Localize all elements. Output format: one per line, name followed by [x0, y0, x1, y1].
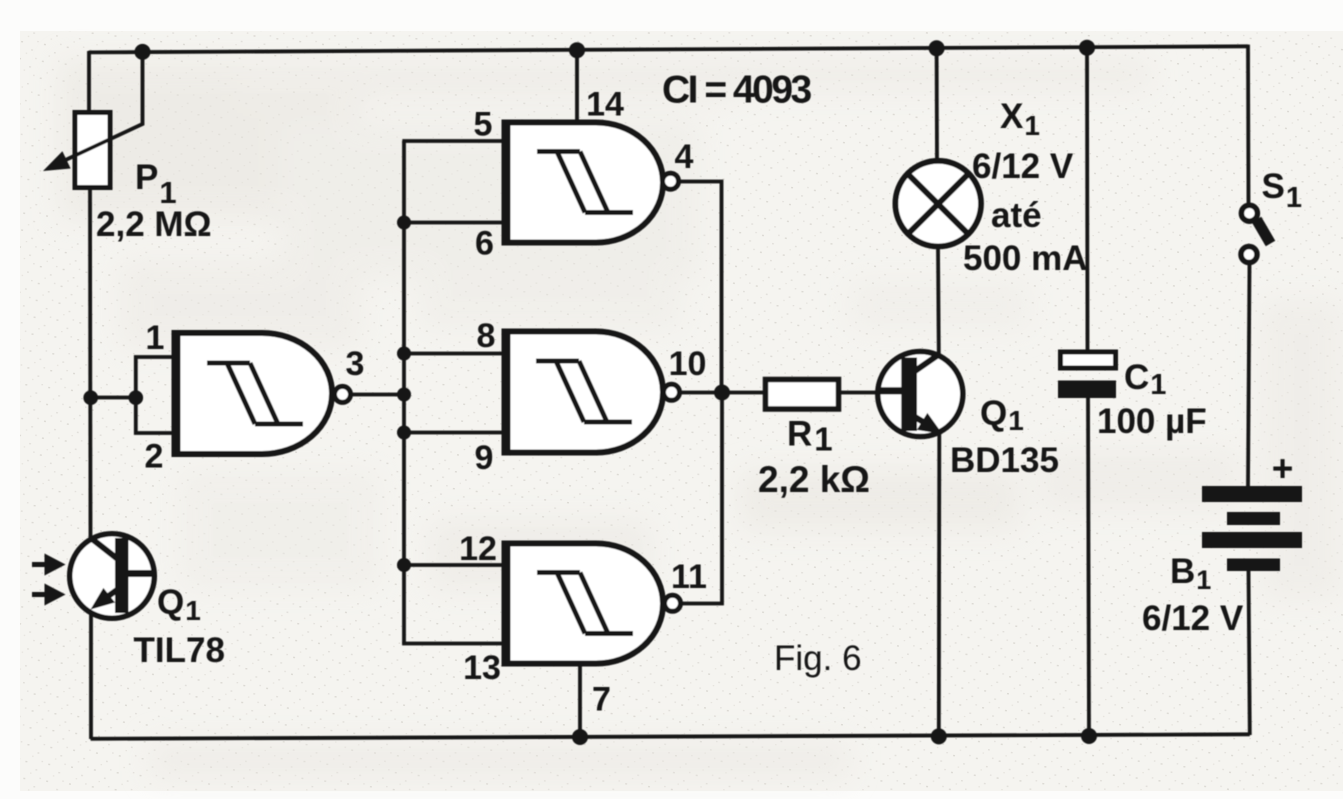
phototransistor Q1 body circle: [70, 534, 155, 619]
battery B1 plate 3: [1202, 532, 1302, 548]
potentiometer P1 wiper arrowhead: [43, 151, 71, 171]
wire: pin3 output: [351, 393, 405, 397]
svg-text:CI = 4093: CI = 4093: [662, 69, 812, 112]
svg-text:3: 3: [346, 345, 365, 383]
wire: pin8 input: [404, 352, 506, 356]
battery B1 plate 1: [1202, 486, 1302, 502]
light arrow 1 head: [45, 554, 66, 576]
node: rail-pin8: [397, 347, 411, 361]
battery B1 plate 2: [1227, 512, 1280, 525]
node: top rail / P1 wiper junction: [135, 44, 151, 60]
svg-text:1: 1: [146, 319, 165, 357]
wire: C1 to ground rail: [1088, 397, 1089, 737]
capacitor C1 top plate: [1061, 352, 1116, 368]
wire: junction to R1: [722, 391, 764, 395]
U1c schmitt symbol: [536, 361, 632, 422]
node: left rail junction: [83, 390, 98, 405]
wire: pin7 ground: [578, 664, 582, 738]
svg-text:10: 10: [669, 345, 707, 383]
node: bracket junction: [129, 390, 144, 405]
wire: top rail to lamp: [935, 48, 939, 162]
svg-text:2,2 kΩ: 2,2 kΩ: [758, 459, 870, 500]
svg-text:4: 4: [675, 138, 694, 176]
transistor Q1 emitter arrowhead: [917, 413, 943, 434]
transistor Q1 BD135 body circle: [878, 352, 963, 437]
svg-text:+: +: [1272, 448, 1294, 489]
wire: collector to lamp: [936, 247, 941, 355]
node: rail-pin3: [397, 388, 411, 402]
light arrow 1 shaft: [32, 562, 48, 567]
nand gate U1a body: [176, 333, 332, 454]
wire: pin13 input: [404, 642, 506, 644]
wire: S1 to battery: [1248, 263, 1250, 486]
wire: top supply rail: [89, 46, 1248, 52]
potentiometer P1 body: [75, 113, 110, 188]
node: emitter-ground junction: [931, 728, 947, 744]
wire: pin9 input: [404, 431, 506, 435]
phototransistor Q1 base bar: [115, 538, 129, 613]
phototransistor Q1 emitter arrowhead: [91, 588, 116, 610]
transistor Q1 collector lead: [915, 355, 939, 372]
wire: right rail top: [1246, 45, 1250, 206]
lamp X1 body: [895, 161, 981, 247]
wire: gate1 input bracket: [136, 357, 176, 433]
U1b schmitt symbol: [537, 152, 633, 213]
phototransistor Q1 emitter lead: [98, 590, 118, 604]
svg-text:BD135: BD135: [950, 441, 1059, 480]
wire: battery to ground rail: [1249, 571, 1250, 735]
transistor Q1 emitter lead: [915, 417, 935, 429]
svg-text:9: 9: [475, 439, 494, 477]
wire: left rail to gate1 input bracket: [90, 396, 136, 400]
switch S1 bottom contact: [1241, 247, 1257, 263]
node: rail-pin12: [397, 558, 411, 572]
svg-text:TIL78: TIL78: [134, 631, 225, 670]
node: outputs junction: [714, 385, 730, 401]
wire: R1 to Q1 base: [839, 391, 903, 395]
nand gate U1c body: [506, 332, 663, 453]
wire: pin14 supply: [575, 50, 579, 124]
svg-text:R1: R1: [787, 415, 833, 458]
U1d output bubble pin 11: [665, 595, 681, 611]
battery B1 plate 4: [1227, 559, 1280, 572]
wire: pin10 output: [679, 391, 723, 395]
nand gate U1b body: [506, 123, 663, 243]
node: C1-ground junction: [1081, 728, 1097, 744]
phototransistor Q1 collector lead: [92, 539, 118, 559]
node: rail-pin9: [397, 426, 411, 440]
light arrow 2 head: [45, 584, 66, 606]
node: rail-pin6: [397, 216, 411, 230]
svg-text:6/12 V: 6/12 V: [1142, 599, 1244, 638]
U1a schmitt symbol: [207, 363, 303, 424]
svg-text:7: 7: [592, 681, 611, 719]
resistor R1 body: [766, 380, 839, 410]
wire: pin4 output: [678, 182, 722, 393]
wire: middle rail: [402, 141, 406, 644]
phototransistor Q1 base line: [124, 570, 154, 577]
wire: pin5 input: [402, 139, 506, 143]
U1a output bubble pin 3: [335, 386, 351, 402]
svg-text:até: até: [991, 196, 1042, 235]
svg-text:8: 8: [477, 317, 496, 355]
svg-text:500 mA: 500 mA: [963, 239, 1088, 278]
switch S1 top contact: [1241, 205, 1257, 221]
node: lamp-top rail junction: [929, 40, 945, 56]
svg-text:6/12 V: 6/12 V: [972, 147, 1074, 186]
node: pin14 junction: [569, 42, 585, 58]
wire: left rail middle segment: [88, 186, 92, 538]
svg-text:12: 12: [459, 530, 497, 568]
wire: top rail to C1: [1085, 47, 1089, 353]
potentiometer P1 wiper wire: [58, 52, 143, 164]
svg-text:2: 2: [145, 438, 164, 476]
transistor Q1 base bar: [901, 358, 917, 432]
U1c output bubble pin 10: [664, 384, 680, 400]
node: C1-top rail junction: [1079, 40, 1095, 56]
node: pin7 junction: [572, 729, 588, 745]
switch S1 lever: [1257, 220, 1271, 244]
svg-text:14: 14: [586, 86, 624, 124]
light arrow 2 shaft: [32, 592, 48, 597]
svg-text:2,2 MΩ: 2,2 MΩ: [96, 205, 212, 244]
svg-text:11: 11: [671, 558, 707, 596]
svg-text:100 µF: 100 µF: [1097, 402, 1207, 441]
svg-text:Fig. 6: Fig. 6: [774, 639, 862, 678]
U1b output bubble pin 4: [663, 173, 679, 189]
wire: pin11 output: [680, 393, 723, 604]
wire: pin6 input: [404, 221, 506, 225]
capacitor C1 bottom plate: [1058, 381, 1116, 399]
wire: pin12 input: [404, 563, 506, 567]
nand gate U1d body: [506, 544, 663, 664]
lamp X1 cross: [907, 173, 969, 235]
U1d schmitt symbol: [537, 573, 633, 634]
svg-text:6: 6: [475, 225, 494, 263]
wire: bottom ground rail: [91, 734, 1250, 739]
svg-text:13: 13: [463, 649, 501, 687]
wire: Q1 base inside segment: [877, 387, 903, 394]
wire: left rail lower segment: [89, 612, 93, 739]
wire: left rail upper segment: [87, 51, 91, 114]
wire: emitter to ground rail: [937, 434, 941, 737]
svg-text:5: 5: [474, 106, 493, 144]
